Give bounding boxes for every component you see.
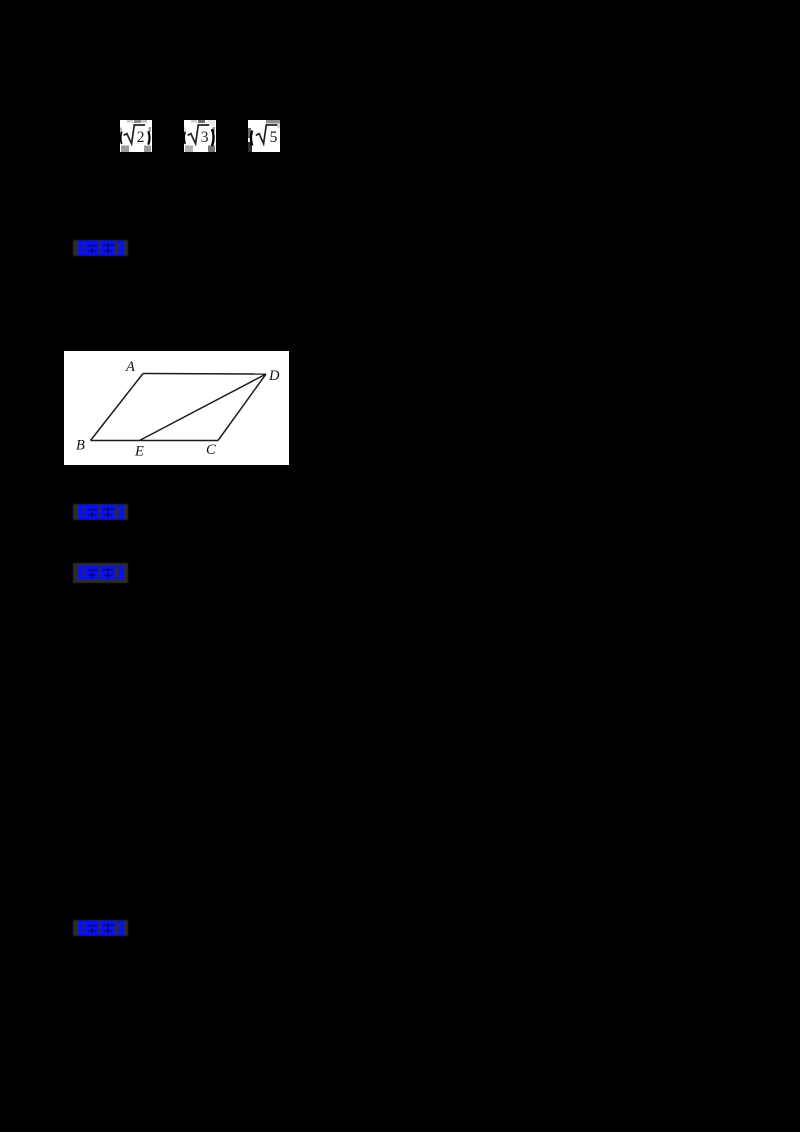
figure image: parallelogram ABCD with E on BC (64, 351, 289, 465)
svg-text:B: B (76, 438, 85, 454)
label 【分析】 analysis label (73, 504, 129, 521)
label 【点睛】 key-point label (73, 920, 129, 937)
side AD (143, 373, 266, 376)
label 【详解】 solution label (73, 563, 129, 584)
side AB (91, 374, 144, 441)
formula image (√2) (120, 120, 152, 152)
formula image (√3) (184, 120, 216, 152)
svg-text:5: 5 (270, 129, 278, 146)
side BC (91, 440, 219, 442)
side CD (218, 374, 266, 441)
svg-text:2: 2 (137, 129, 145, 146)
svg-text:E: E (134, 444, 144, 460)
svg-text:D: D (268, 368, 280, 384)
svg-text:A: A (125, 359, 135, 375)
svg-text:3: 3 (201, 129, 209, 146)
svg-text:C: C (206, 442, 216, 458)
formula image (√5) (248, 120, 280, 152)
label 【答案】 answer label (73, 240, 129, 257)
segment ED (140, 374, 267, 441)
